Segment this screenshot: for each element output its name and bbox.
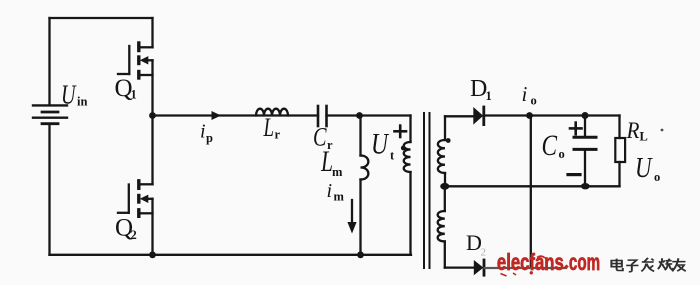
svg-text:U: U xyxy=(61,79,77,109)
label Uin xyxy=(61,79,87,109)
junction node io xyxy=(526,112,533,119)
watermark chinese text: 友 xyxy=(672,258,686,271)
stray ink speck xyxy=(661,129,664,132)
svg-text:i: i xyxy=(200,121,206,143)
svg-text:2: 2 xyxy=(131,228,137,242)
wire primary top (node to Cr) xyxy=(153,114,319,116)
polarity dot secondary xyxy=(446,138,451,143)
svg-text:o: o xyxy=(531,94,537,108)
label Q2 xyxy=(115,215,137,242)
transformer secondary upper winding xyxy=(438,116,445,186)
wire left rail upper xyxy=(48,18,50,105)
svg-text:C: C xyxy=(542,129,558,162)
svg-text:i: i xyxy=(522,82,528,106)
plus sign Ut xyxy=(395,126,407,137)
wire output return (center tap rail) xyxy=(445,185,620,187)
label D2 xyxy=(466,230,486,259)
battery Uin xyxy=(33,105,67,123)
transformer primary winding xyxy=(404,116,411,255)
svg-text:L: L xyxy=(263,113,274,142)
junction Co top xyxy=(582,112,589,119)
svg-text:com: com xyxy=(569,250,600,276)
capacitor Cr xyxy=(318,106,327,126)
label D1 xyxy=(470,76,492,103)
diode D2 xyxy=(474,260,484,275)
wire lower secondary to D2 xyxy=(445,266,474,268)
label Cr xyxy=(313,122,333,153)
inductor Lm branch xyxy=(361,116,369,255)
svg-text:U: U xyxy=(635,152,653,184)
svg-text:L: L xyxy=(640,130,648,144)
label RL xyxy=(626,118,648,144)
current arrow im xyxy=(347,200,356,234)
watermark chinese text: 子 xyxy=(626,260,638,272)
transistor Q2 (MOSFET) xyxy=(118,116,153,255)
transistor Q1 (MOSFET) xyxy=(118,18,153,116)
label Q1 xyxy=(115,75,137,102)
wire right rail lower xyxy=(618,162,620,186)
watermark chinese text: 烧 xyxy=(658,258,674,270)
junction node midpoint xyxy=(149,112,156,119)
wire Cr to transformer xyxy=(327,114,411,116)
svg-text:2: 2 xyxy=(481,247,487,259)
label ip xyxy=(200,121,213,146)
wire riser D2 to node io xyxy=(530,116,532,268)
label Lr xyxy=(263,113,281,142)
wire secondary top to D1 xyxy=(445,115,473,117)
diode D1 xyxy=(473,107,484,125)
svg-text:m: m xyxy=(332,165,343,179)
wire D1 to node io xyxy=(484,114,620,116)
watermark chinese text: 电 xyxy=(611,259,622,271)
plus sign Co xyxy=(570,123,582,135)
capacitor Co xyxy=(574,116,596,184)
svg-text:in: in xyxy=(77,95,87,109)
svg-text:i: i xyxy=(327,180,333,202)
watermark red specks xyxy=(501,256,546,276)
svg-text:m: m xyxy=(334,190,345,204)
svg-text:r: r xyxy=(275,128,281,142)
junction node Lm branch xyxy=(356,112,363,119)
label Co xyxy=(542,129,565,162)
wire bottom rail xyxy=(50,254,412,256)
svg-text:R: R xyxy=(626,118,640,143)
inductor Lr xyxy=(256,109,288,116)
svg-text:o: o xyxy=(654,170,660,184)
resistor RL xyxy=(615,138,625,162)
wire top rail xyxy=(50,17,153,19)
junction Q2 source to bottom rail xyxy=(149,251,156,258)
minus sign Co xyxy=(568,173,580,176)
polarity dot primary xyxy=(401,146,406,151)
watermark chinese text: 发 xyxy=(641,258,654,272)
svg-text:t: t xyxy=(390,149,395,163)
svg-text:1: 1 xyxy=(486,89,492,103)
label Ut xyxy=(371,128,395,163)
svg-text:D: D xyxy=(466,230,482,255)
wire D2 to riser (passes under watermark) xyxy=(485,267,566,269)
svg-text:U: U xyxy=(371,128,390,161)
junction Co bottom xyxy=(581,183,590,189)
junction center tap xyxy=(440,183,449,190)
svg-text:1: 1 xyxy=(131,88,137,102)
transformer core xyxy=(424,113,430,268)
watermark elecfans.com xyxy=(497,250,600,276)
svg-text:p: p xyxy=(206,131,213,145)
label im xyxy=(327,180,345,204)
wire left rail lower xyxy=(48,124,50,255)
svg-text:o: o xyxy=(559,147,565,161)
transformer secondary lower winding xyxy=(438,186,445,267)
label io xyxy=(522,82,537,108)
label Uo xyxy=(635,152,660,184)
junction Lm to bottom rail xyxy=(357,251,364,258)
current arrow ip xyxy=(212,111,222,120)
label Lm xyxy=(320,145,343,179)
wire right rail upper xyxy=(618,116,620,139)
